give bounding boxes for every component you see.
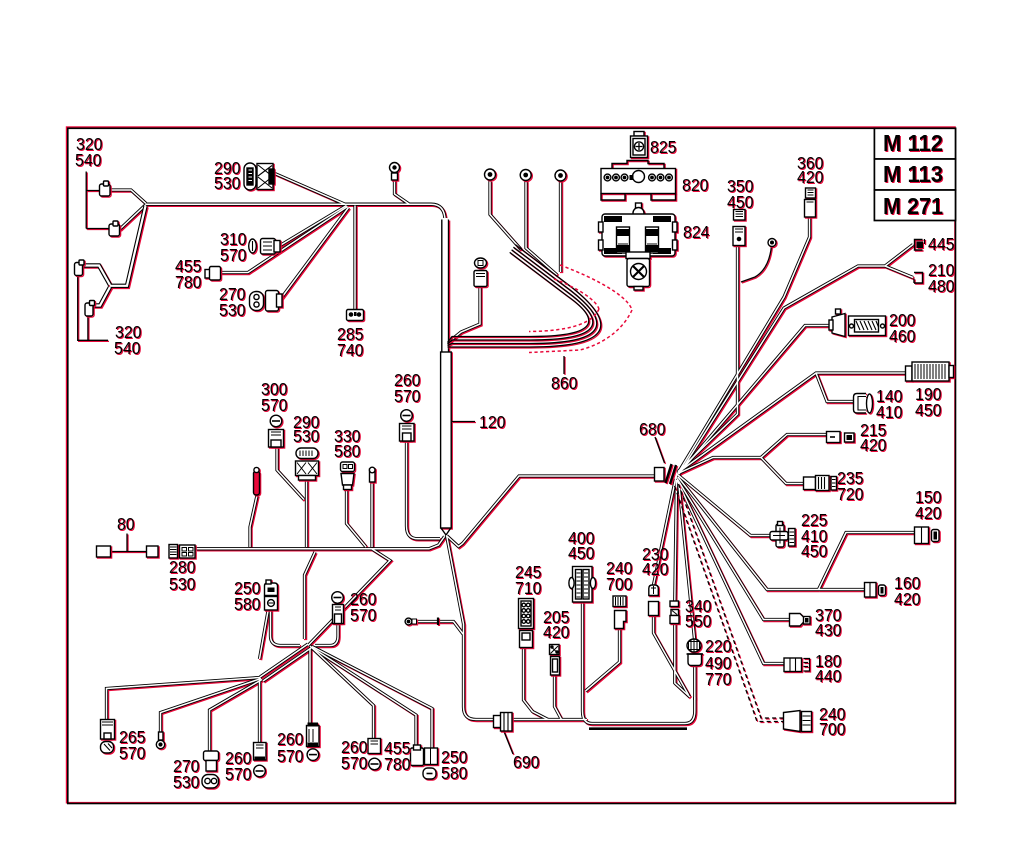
svg-text:430: 430 (815, 620, 842, 640)
trunk taper to node (441, 528, 451, 535)
M table labels (883, 130, 943, 219)
main trunk vertical thick tube (441, 218, 453, 535)
svg-text:710: 710 (515, 578, 542, 598)
svg-text:M 113: M 113 (883, 161, 943, 187)
svg-text:450: 450 (801, 541, 828, 561)
svg-text:700: 700 (819, 719, 846, 739)
svg-text:530: 530 (214, 173, 241, 193)
diagram frame (68, 128, 956, 803)
thin lines (79, 173, 784, 756)
svg-text:410: 410 (876, 402, 903, 422)
svg-text:570: 570 (341, 753, 368, 773)
svg-text:530: 530 (219, 300, 246, 320)
svg-text:420: 420 (797, 167, 824, 187)
svg-text:450: 450 (727, 192, 754, 212)
svg-text:690: 690 (513, 752, 540, 772)
svg-text:570: 570 (261, 395, 288, 415)
svg-text:420: 420 (543, 622, 570, 642)
svg-text:M 271: M 271 (883, 193, 943, 219)
svg-text:570: 570 (119, 743, 146, 763)
svg-text:420: 420 (642, 559, 669, 579)
svg-text:480: 480 (928, 276, 955, 296)
bundle 860 underline emphasis (589, 727, 687, 730)
svg-text:824: 824 (683, 222, 710, 242)
wires: red ghost, black outline, white core (108, 174, 916, 753)
svg-text:720: 720 (837, 484, 864, 504)
svg-text:570: 570 (220, 245, 247, 265)
CONNECTORS (76, 133, 955, 790)
M table labels red ghost (884, 131, 944, 220)
svg-text:570: 570 (225, 764, 252, 784)
shield outline 860 dashed red (529, 265, 632, 353)
svg-text:460: 460 (889, 326, 916, 346)
svg-text:680: 680 (639, 419, 666, 439)
svg-text:580: 580 (441, 763, 468, 783)
svg-text:570: 570 (277, 746, 304, 766)
trunk sleeve (442, 353, 453, 529)
svg-text:530: 530 (169, 574, 196, 594)
svg-text:80: 80 (117, 514, 135, 534)
svg-text:700: 700 (606, 574, 633, 594)
svg-text:440: 440 (815, 666, 842, 686)
svg-text:445: 445 (928, 234, 955, 254)
svg-text:530: 530 (173, 772, 200, 792)
svg-text:580: 580 (234, 594, 261, 614)
svg-text:570: 570 (394, 386, 421, 406)
svg-text:450: 450 (915, 400, 942, 420)
svg-text:580: 580 (334, 441, 361, 461)
svg-text:570: 570 (350, 605, 377, 625)
svg-text:420: 420 (894, 589, 921, 609)
svg-text:420: 420 (915, 503, 942, 523)
M table (874, 128, 955, 220)
svg-text:860: 860 (551, 373, 578, 393)
TEXT labels red ghost (76, 135, 956, 793)
svg-text:820: 820 (682, 175, 709, 195)
svg-text:420: 420 (860, 435, 887, 455)
svg-text:825: 825 (650, 137, 677, 157)
svg-text:770: 770 (705, 669, 732, 689)
svg-text:120: 120 (479, 412, 506, 432)
svg-text:550: 550 (685, 611, 712, 631)
svg-text:780: 780 (384, 754, 411, 774)
svg-text:450: 450 (568, 543, 595, 563)
svg-text:540: 540 (114, 338, 141, 358)
svg-text:540: 540 (75, 150, 102, 170)
svg-text:780: 780 (175, 272, 202, 292)
svg-text:M 112: M 112 (883, 130, 943, 156)
frame red ghost (67, 127, 955, 803)
svg-text:740: 740 (337, 340, 364, 360)
svg-text:530: 530 (293, 426, 320, 446)
